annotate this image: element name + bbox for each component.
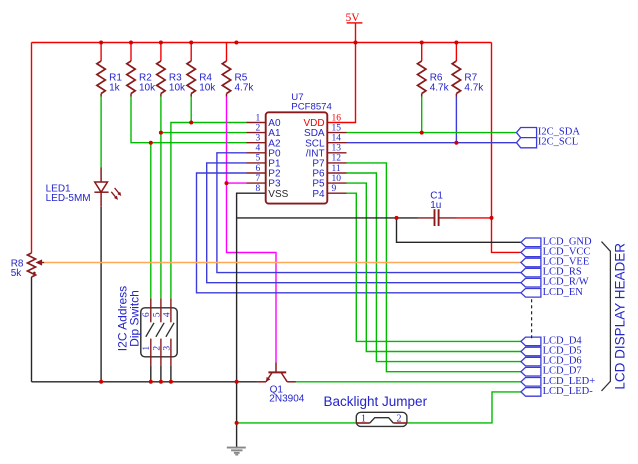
svg-text:10k: 10k [139,82,156,93]
dip switch pin 5 [160,298,162,322]
wire P1 to LCD_R/W [207,163,521,283]
wire R3 to A1 and dip switch pin 5 [160,97,162,299]
wire P3 net to Q1 base [227,183,277,362]
dashed header continuation [531,299,533,338]
resistor R3 [157,61,165,94]
pin 1 A0 [247,122,266,124]
svg-text:14: 14 [332,134,342,144]
wire A1 net to pin 2 [161,132,247,134]
dip switch lever 4-3 [166,323,174,337]
svg-text:6: 6 [142,312,152,317]
svg-text:10: 10 [332,174,342,184]
svg-text:P4: P4 [312,189,325,200]
wire R7 to SCL net [455,97,457,143]
junction ground/C1 [395,216,399,220]
svg-text:4: 4 [255,144,260,154]
wire R6 to SDA net [421,97,423,133]
wire LED1 cathode to ground bus [100,207,102,382]
node LCD_VEE [521,258,541,267]
wire P4 to LCD_D4 [347,193,521,341]
node LCD_D7 [521,367,541,376]
node LCD_GND [521,238,541,247]
svg-text:11: 11 [332,164,341,174]
svg-text:5: 5 [152,312,162,317]
junction SCL/R7 [454,141,458,145]
resistor R4 [187,61,195,94]
wire bottom ground bus [32,381,258,383]
svg-text:7: 7 [255,174,260,184]
svg-text:2: 2 [397,413,402,424]
wire Q1 collector to LCD_LED+ [296,381,521,383]
ground [227,447,246,449]
wire 5V stem to VDD [327,23,355,123]
node LCD_EN [521,289,541,298]
transistor Q1 [275,362,277,372]
wire R7 top [455,43,457,62]
dip switch pin 3 [170,339,172,366]
svg-text:1: 1 [361,413,366,424]
wire ground rail to jumper pin 1 [237,422,357,424]
svg-text:5: 5 [255,154,260,164]
svg-text:12: 12 [332,154,342,164]
pin 10 P5 [327,182,346,184]
wire R1 top [100,43,102,62]
potentiometer R8 [27,253,35,277]
resistor R5 [222,61,230,94]
wire R5 to P3 net [226,97,228,184]
header bracket [602,242,611,391]
junction dots bottom bus [99,380,103,384]
pin 11 P6 [327,172,346,174]
svg-text:PCF8574: PCF8574 [291,101,332,112]
svg-text:2: 2 [152,346,162,351]
svg-text:4.7k: 4.7k [464,82,484,93]
wire left 5V rail to R8 [31,43,33,254]
dip switch lever 6-1 [146,323,154,337]
svg-text:4.7k: 4.7k [235,82,255,93]
node LCD_D6 [521,357,541,366]
svg-text:LED-5MM: LED-5MM [46,193,91,204]
wire R2 to A2 net [131,97,247,143]
pin 12 P7 [327,162,346,164]
wire R1 to LED1 anode [100,97,102,168]
svg-text:9: 9 [332,184,337,194]
wire R4 to A0 net [190,97,192,123]
wire P2 to LCD_EN [197,173,521,293]
junction dots top bus [99,41,103,45]
wire R2 top [130,43,132,62]
node LCD_RS [521,268,541,277]
svg-text:2: 2 [255,123,260,133]
svg-text:1k: 1k [109,82,121,93]
jumper bridge [370,418,394,423]
dip switch SW1 body [141,308,177,357]
wire jumper pin 2 to LCD_LED- [407,392,521,423]
jumper JP1 body [356,412,407,426]
wire ground to C1 [237,217,418,219]
pin 3 A2 [247,142,266,144]
svg-text:LCD_EN: LCD_EN [543,287,584,298]
junction ground/jumper [235,421,239,425]
dip switch pin 2 [160,339,162,366]
pin 9 P4 [327,192,346,194]
svg-text:10k: 10k [199,82,216,93]
svg-text:Backlight Jumper: Backlight Jumper [324,394,428,409]
capacitor C1 [434,209,436,226]
dip switch lever 5-2 [156,323,164,337]
pin 4 P0 [247,152,266,154]
wire dip switch pins to ground bus [150,365,152,382]
wire R8 wiper to LCD_VEE [44,262,521,264]
svg-text:3: 3 [162,346,172,351]
svg-text:10k: 10k [169,82,186,93]
wire P0 to LCD_RS [217,153,521,273]
node I2C_SDA [517,128,537,138]
dip switch pin 1 [150,339,152,366]
junction A0/R4 [189,121,193,125]
junction SDA/R6 [420,131,424,135]
svg-text:Dip Switch: Dip Switch [128,290,142,347]
node I2C_SCL [517,138,537,148]
svg-text:I2C_SCL: I2C_SCL [538,137,578,148]
svg-text:LCD DISPLAY HEADER: LCD DISPLAY HEADER [613,243,628,390]
svg-text:4.7k: 4.7k [430,82,450,93]
node LCD_LED+ [521,378,541,387]
svg-text:16: 16 [332,113,342,123]
wire right 5V rail to C1 and LCD_VCC [492,43,521,253]
wire R8 bottom to ground bus [31,277,33,382]
junction P3/R5 [225,181,229,185]
jumper pin 2 [393,422,407,424]
node LCD_VCC [521,248,541,257]
wire R4 top [190,43,192,62]
wire P7 to LCD_D7 [347,163,521,372]
LED LED1 [100,167,102,182]
svg-text:LCD_LED-: LCD_LED- [543,386,594,397]
op-amp U7 PCF8574 body [266,112,328,203]
wire R6 top [421,43,423,62]
dip switch pin 6 [150,298,152,322]
wire R3 top [160,43,162,62]
wire A0 net pin 1 to dip switch pin 4 [171,123,247,299]
wire C1 right to VCC rail [457,217,492,219]
wire A2 net to dip switch pin 6 [150,143,152,299]
svg-text:1: 1 [142,346,152,351]
svg-text:8: 8 [255,184,260,194]
node LCD_D4 [521,337,541,346]
wire 5V top bus [32,42,492,44]
wire R5 top [226,43,228,62]
pin 13 /INT [327,152,346,154]
wire SCL to I2C_SCL [347,142,517,144]
node LCD_D5 [521,347,541,356]
node LCD_R/W [521,278,541,287]
junction A2/dip6 [149,141,153,145]
pin 14 SCL [327,142,346,144]
wire P5 to LCD_D5 [347,183,521,351]
svg-text:6: 6 [255,164,260,174]
svg-text:1: 1 [255,113,260,123]
wire P3 net to pin 7 [227,182,247,184]
junction VCC/C1 [490,216,494,220]
resistor R6 [418,61,426,94]
resistor R2 [127,61,135,94]
svg-text:3: 3 [255,134,260,144]
resistor R7 [452,61,460,94]
wire C1 right stub [439,217,457,219]
pin 7 P3 [247,182,266,184]
junction A1/R3 [159,131,163,135]
wire P6 to LCD_D6 [347,173,521,362]
svg-text:VSS: VSS [268,189,288,200]
node LCD_LED- [521,388,541,397]
dip switch pin 4 [170,298,172,322]
wire R8 top red [31,252,33,254]
pin 5 P1 [247,162,266,164]
pin 6 P2 [247,172,266,174]
svg-text:2N3904: 2N3904 [269,394,304,405]
LED1 emission arrows [115,188,120,194]
resistor R1 [97,61,105,94]
jumper pin 1 [356,422,370,424]
wire ground to LCD_GND [397,218,521,242]
wire SDA to I2C_SDA [347,132,517,134]
pin 15 SDA [327,132,346,134]
svg-text:5k: 5k [11,268,23,279]
svg-text:13: 13 [332,144,342,154]
wire VSS to ground rail [237,193,266,448]
svg-text:4: 4 [162,312,172,317]
svg-text:1u: 1u [430,200,441,211]
wire C1 left stub [418,217,435,219]
pin 2 A1 [247,132,266,134]
svg-text:15: 15 [332,123,342,133]
